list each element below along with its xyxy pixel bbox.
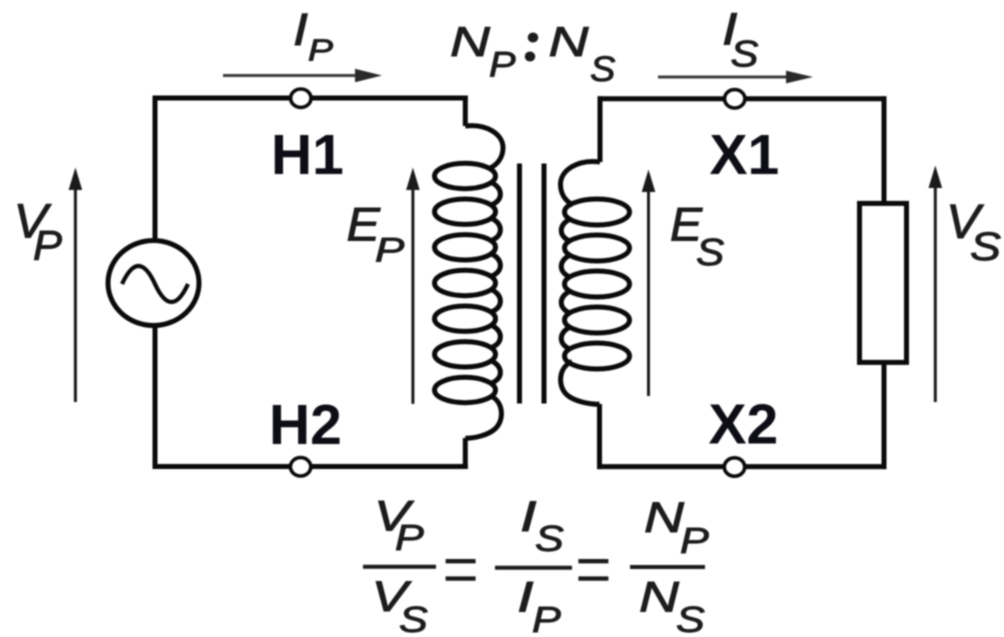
arrow: secondary current Is: [658, 71, 813, 84]
svg-text:N: N: [639, 574, 680, 622]
wire: primary left vertical, source top to top rail: [153, 96, 158, 242]
wire: primary bottom rail H2 side: [153, 464, 468, 469]
svg-text:P: P: [489, 46, 516, 85]
formula fraction Np/Ns: [630, 494, 709, 637]
label Ep: [347, 197, 405, 269]
arrow: secondary voltage Vs: [929, 166, 943, 403]
label Es: [670, 198, 724, 274]
svg-text:S: S: [590, 50, 615, 89]
wire: secondary top rail X1 side: [598, 96, 887, 101]
wire: primary left vertical, source bottom to bottom rail: [153, 325, 158, 469]
terminal node H1: [291, 89, 311, 107]
arrow: primary voltage Vp: [69, 168, 83, 403]
svg-text:X2: X2: [709, 392, 779, 456]
wire: secondary right vertical down to load resistor: [882, 96, 887, 205]
wire: stub from top rail down to secondary coil: [598, 96, 603, 162]
svg-text:H1: H1: [271, 123, 344, 187]
svg-text:S: S: [676, 599, 705, 637]
wire: stub from primary coil down to bottom rail: [463, 438, 468, 469]
label Is: [722, 4, 759, 75]
terminal node X1: [725, 90, 745, 108]
formula fraction Is/Ip: [495, 493, 572, 637]
svg-text:X1: X1: [710, 123, 780, 187]
secondary winding L2 (5 turns): [560, 162, 629, 405]
load resistor RL: [860, 203, 907, 362]
svg-text:P: P: [395, 517, 424, 558]
svg-text:S: S: [399, 599, 428, 637]
arrow: primary current Ip: [223, 69, 382, 82]
label Ip: [293, 4, 333, 68]
svg-text:P: P: [308, 33, 333, 68]
wire: primary top rail H1 side: [153, 96, 468, 101]
svg-text:I: I: [293, 4, 308, 55]
arrow: primary EMF Ep: [406, 168, 420, 404]
svg-text:S: S: [535, 518, 564, 559]
sine symbol inside source: [122, 266, 188, 302]
wire: stub from top rail down to primary coil: [463, 96, 468, 127]
svg-text:P: P: [680, 520, 709, 561]
svg-text:P: P: [375, 232, 405, 270]
formula equals sign 1: [446, 561, 476, 578]
wire: load resistor bottom to bottom rail: [882, 361, 887, 469]
primary winding L1 (7 turns): [435, 126, 504, 439]
terminal node H2: [290, 458, 310, 476]
svg-text:S: S: [731, 34, 759, 75]
arrow: secondary EMF Es: [642, 170, 656, 397]
svg-text:N: N: [450, 18, 491, 65]
terminal node X2: [724, 458, 744, 476]
transformer core (two bars): [520, 164, 545, 404]
label Vp: [14, 196, 63, 269]
formula equals sign 2: [578, 561, 608, 578]
wire: secondary bottom rail X2 side: [597, 464, 887, 469]
svg-text:N: N: [549, 18, 590, 65]
wire: stub from secondary coil down to bottom rail: [597, 404, 602, 469]
svg-text:H2: H2: [269, 393, 342, 457]
svg-text:S: S: [970, 225, 1001, 269]
formula fraction Vp/Vs: [363, 492, 436, 637]
label turns ratio Np:Ns: [450, 18, 615, 89]
svg-text:P: P: [33, 222, 62, 269]
label Vs: [946, 196, 1001, 269]
svg-text:S: S: [696, 232, 724, 274]
svg-text:P: P: [532, 599, 561, 637]
AC voltage source V1: [108, 241, 199, 326]
